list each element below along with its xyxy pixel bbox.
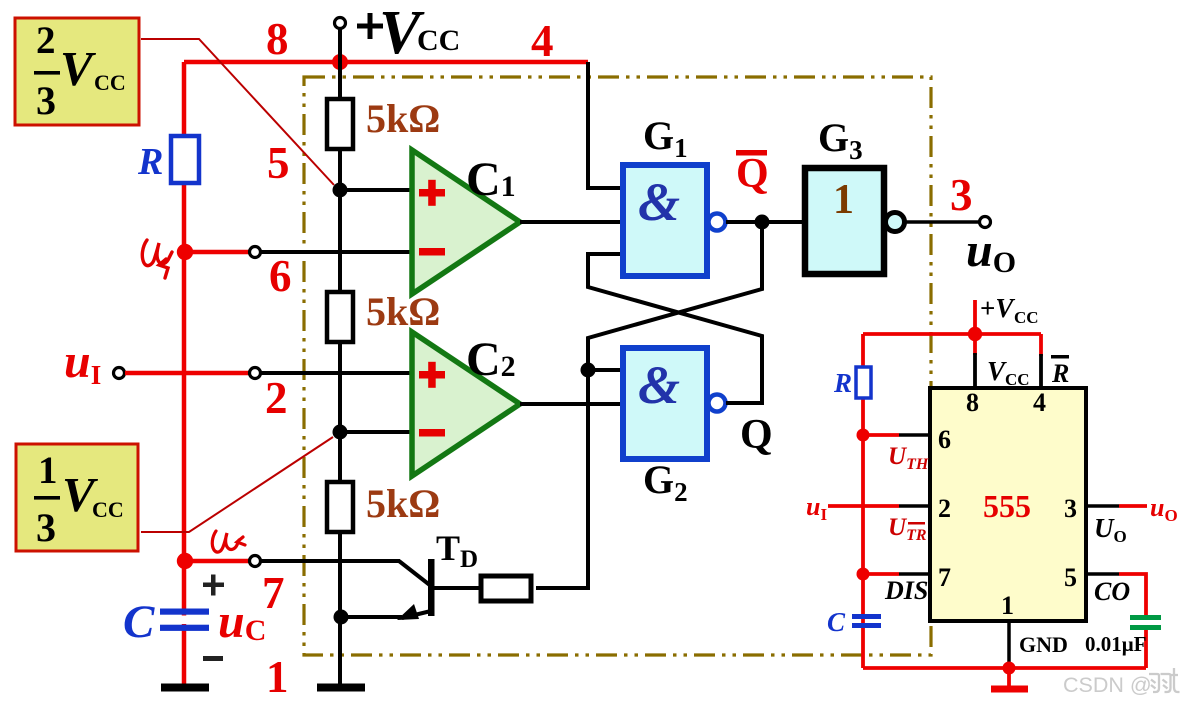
svg-text:6: 6 bbox=[938, 425, 951, 454]
svg-text:7: 7 bbox=[938, 563, 951, 592]
base resistor bbox=[481, 576, 531, 601]
svg-text:4: 4 bbox=[1033, 388, 1046, 417]
svg-text:C: C bbox=[123, 596, 155, 648]
svg-text:R: R bbox=[1051, 359, 1069, 388]
wire Qbar feedback diagonal A bbox=[536, 222, 762, 588]
svg-text:2: 2 bbox=[938, 494, 951, 523]
svg-text:3: 3 bbox=[36, 505, 56, 550]
node: +Vcc junction dot bbox=[332, 54, 348, 70]
bottom red wire bbox=[863, 666, 1146, 670]
label uc script top bbox=[142, 240, 172, 278]
svg-text:V: V bbox=[60, 41, 97, 96]
node emitter junction bbox=[334, 610, 349, 625]
svg-text:3: 3 bbox=[950, 170, 973, 220]
svg-text:1: 1 bbox=[833, 177, 854, 223]
wire TD emitter to rail bbox=[341, 615, 402, 619]
callout box 2/3 Vcc bbox=[15, 18, 139, 125]
red wires top bbox=[863, 332, 1041, 336]
svg-text:CSDN @: CSDN @ bbox=[1063, 673, 1152, 697]
svg-text:4: 4 bbox=[531, 16, 554, 66]
svg-text:+V: +V bbox=[980, 293, 1015, 323]
pin6 node and wire bbox=[857, 429, 870, 442]
pin5 wire bbox=[1086, 572, 1119, 576]
resistor R blue small bbox=[856, 367, 871, 398]
pin7 node and wire bbox=[857, 568, 870, 581]
watermark bbox=[1063, 668, 1180, 697]
TD emitter lead with arrow bbox=[402, 611, 431, 618]
wire pin7 to transistor bbox=[261, 559, 400, 563]
svg-text:Q: Q bbox=[736, 151, 769, 197]
wire C2 out to G2 lower input bbox=[520, 402, 623, 406]
TD base wire bbox=[434, 586, 481, 590]
wire red pin7 bbox=[185, 559, 249, 564]
svg-text:5kΩ: 5kΩ bbox=[366, 481, 440, 526]
resistor R external blue bbox=[171, 136, 199, 183]
comparator C2 bbox=[412, 332, 520, 476]
black pin stubs top bbox=[973, 353, 977, 388]
node A: 2/3 Vcc divider node bbox=[333, 183, 348, 198]
node Qbar dot bbox=[755, 215, 770, 230]
gate G1 NAND bbox=[623, 165, 707, 276]
resistor 5k middle bbox=[327, 292, 353, 342]
svg-text:2: 2 bbox=[36, 19, 56, 62]
svg-text:GND: GND bbox=[1019, 632, 1068, 657]
svg-text:DIS: DIS bbox=[884, 576, 928, 605]
terminal uI open circle bbox=[114, 368, 125, 379]
terminal +Vcc open circle bbox=[335, 18, 346, 29]
svg-text:&: & bbox=[638, 355, 680, 415]
G3 output bubble bbox=[886, 213, 905, 232]
wire G2 out to feedback bbox=[726, 401, 764, 405]
transistor TD base bar bbox=[428, 559, 435, 616]
ground red bbox=[1007, 668, 1011, 686]
ground center rail bbox=[317, 684, 365, 692]
wire pin2 to C2 plus bbox=[261, 371, 412, 375]
svg-text:555: 555 bbox=[983, 488, 1031, 524]
pin3 output wire bbox=[1086, 504, 1119, 508]
C1 plus sign bbox=[419, 180, 445, 206]
svg-text:5: 5 bbox=[1064, 563, 1077, 592]
svg-text:C: C bbox=[827, 607, 846, 637]
terminal pin7 open circle bbox=[250, 556, 261, 567]
callout line 2/3 to node A bbox=[141, 39, 334, 185]
callout line 1/3 to node B bbox=[141, 437, 333, 532]
label Rbar pin4 bbox=[1051, 355, 1069, 388]
svg-text:Q: Q bbox=[740, 412, 773, 458]
svg-text:8: 8 bbox=[966, 388, 979, 417]
wire node A to C1 plus bbox=[340, 188, 412, 192]
svg-text:CO: CO bbox=[1094, 577, 1130, 606]
svg-text:7: 7 bbox=[262, 568, 285, 618]
black resistor rail bbox=[338, 62, 342, 687]
chip 555 body bbox=[930, 388, 1086, 621]
pin1 stub bbox=[1007, 621, 1011, 664]
capacitor 0.01uF green bbox=[1130, 615, 1161, 630]
svg-text:CC: CC bbox=[92, 497, 124, 522]
TD collector lead bbox=[399, 561, 431, 586]
wire red pin6 bbox=[185, 250, 249, 255]
label uc script bottom bbox=[212, 531, 245, 552]
svg-text:8: 8 bbox=[266, 14, 289, 64]
resistor 5k top bbox=[327, 99, 353, 149]
left red rail bbox=[861, 334, 865, 668]
node uc2 red dot pin7 bbox=[177, 553, 193, 569]
label +Vcc bbox=[357, 13, 383, 39]
comparator C1 bbox=[412, 150, 520, 294]
svg-text:R: R bbox=[137, 141, 163, 183]
svg-text:CC: CC bbox=[1014, 308, 1039, 327]
svg-text:CC: CC bbox=[94, 70, 126, 95]
wire: Vcc stub to terminal bbox=[338, 29, 342, 62]
label plus sign bbox=[203, 575, 224, 596]
svg-text:1: 1 bbox=[266, 652, 289, 702]
wire node B to C2 minus bbox=[340, 430, 412, 434]
svg-text:5: 5 bbox=[267, 138, 290, 188]
wire G3 out bbox=[905, 220, 980, 224]
svg-text:5kΩ: 5kΩ bbox=[366, 96, 440, 141]
C2 minus sign bbox=[419, 429, 445, 437]
G1 output bubble bbox=[709, 214, 726, 231]
svg-text:6: 6 bbox=[269, 251, 292, 301]
svg-text:0.01μF: 0.01μF bbox=[1085, 632, 1146, 656]
label minus sign bbox=[203, 656, 223, 661]
svg-text:3: 3 bbox=[36, 78, 56, 123]
wire: Vcc rail red horizontal bbox=[184, 60, 588, 65]
svg-text:&: & bbox=[638, 172, 680, 232]
wire C1 out to G1 bbox=[520, 220, 623, 224]
G2 output bubble bbox=[709, 395, 726, 412]
terminal pin2 open circle bbox=[250, 368, 261, 379]
svg-text:1: 1 bbox=[38, 449, 58, 492]
gate G3 buffer bbox=[805, 168, 884, 274]
terminal output open circle bbox=[980, 217, 991, 228]
svg-text:3: 3 bbox=[1064, 494, 1077, 523]
wire G1 third input stub and cross diagonal B bbox=[588, 254, 762, 402]
gate G2 NAND bbox=[623, 348, 707, 459]
callout box 1/3 Vcc bbox=[16, 444, 138, 551]
label UTR bbox=[888, 514, 927, 544]
C1 minus sign bbox=[419, 248, 445, 256]
resistor 5k bottom bbox=[327, 482, 353, 532]
C2 plus sign bbox=[419, 362, 445, 388]
wire pin6 to C1 minus bbox=[261, 250, 412, 254]
svg-text:CC: CC bbox=[417, 24, 460, 57]
node: G2 input junction bbox=[581, 363, 596, 378]
wire: reset line pin4 down to G1 bbox=[588, 62, 623, 188]
label Qbar red bbox=[736, 150, 769, 197]
node B: 1/3 Vcc divider node bbox=[333, 425, 348, 440]
capacitor C external blue bbox=[180, 616, 190, 625]
uI input wire bbox=[828, 504, 899, 508]
terminal pin6 open circle bbox=[250, 247, 261, 258]
wire G2 upper input from node bbox=[588, 368, 623, 372]
wire uI red bbox=[125, 371, 249, 376]
svg-text:1: 1 bbox=[1001, 591, 1014, 620]
ground left red rail bbox=[161, 684, 209, 692]
svg-text:R: R bbox=[833, 368, 852, 398]
svg-text:5kΩ: 5kΩ bbox=[366, 289, 440, 334]
dash-dot boundary box of 555 internals bbox=[304, 77, 931, 655]
node uc red dot pin6 bbox=[177, 244, 193, 260]
wire G1 out to node Qbar bbox=[726, 220, 803, 224]
wire: left red rail vertical bbox=[182, 62, 187, 686]
capacitor C blue small bbox=[852, 614, 881, 628]
svg-text:2: 2 bbox=[265, 373, 288, 423]
